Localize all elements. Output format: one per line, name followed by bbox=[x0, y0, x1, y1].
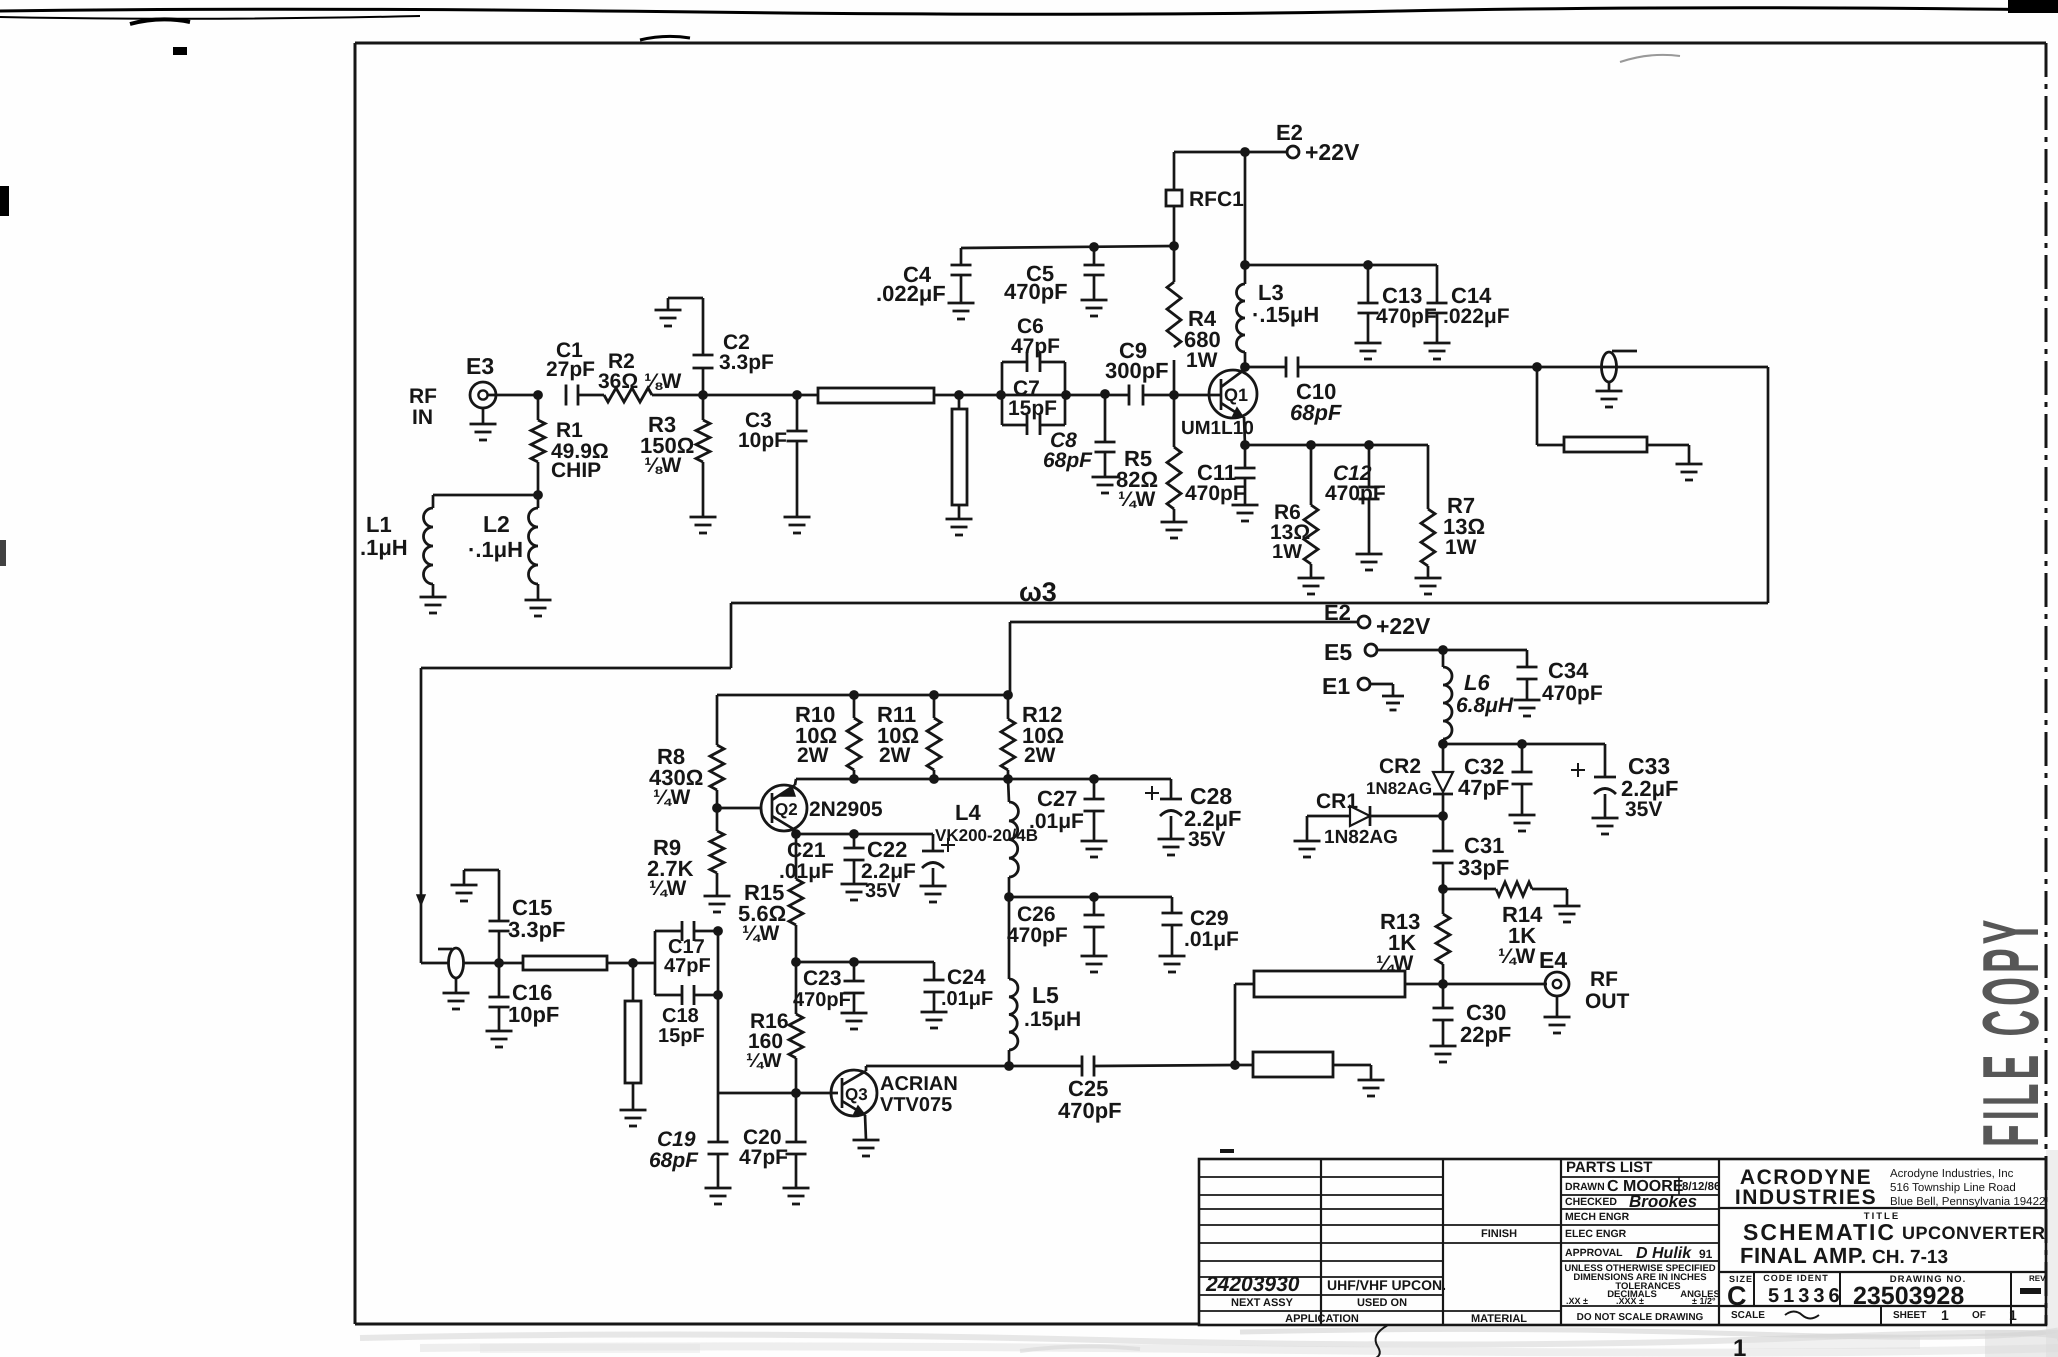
label RFC1 bbox=[1189, 188, 1244, 211]
svg-text:1W: 1W bbox=[1272, 541, 1302, 563]
ground below C20 bbox=[783, 1188, 810, 1204]
node: junction R12/L4 bbox=[1003, 774, 1013, 784]
node: junction R4/R5/base Q1 bbox=[1169, 390, 1179, 400]
node: junction Q2 collector bbox=[791, 829, 801, 839]
resistor R4 bbox=[1167, 246, 1181, 395]
svg-text:27pF: 27pF bbox=[546, 358, 595, 381]
svg-text:.XXX ±: .XXX ± bbox=[1616, 1296, 1644, 1306]
ground below C27 bbox=[1081, 841, 1108, 857]
label C32 47pF bbox=[1458, 754, 1509, 800]
node: junction emitter bus bbox=[1240, 440, 1250, 450]
svg-text:1W: 1W bbox=[1445, 536, 1477, 559]
label C34 470pF bbox=[1542, 658, 1603, 705]
scan artifact: bottom speckle band bbox=[360, 1150, 2058, 1357]
wire W3 feedback bbox=[417, 367, 1768, 963]
terminal E3 (RF IN connector) bbox=[470, 382, 538, 408]
label C16 10pF bbox=[508, 980, 559, 1027]
wire C13/C14 rail bbox=[1245, 264, 1437, 267]
svg-text:¼W: ¼W bbox=[653, 786, 691, 809]
svg-text:FILE COPY: FILE COPY bbox=[1967, 916, 2055, 1147]
svg-text:.01μF: .01μF bbox=[941, 988, 993, 1010]
svg-text:Blue Bell, Pennsylvania 19422: Blue Bell, Pennsylvania 19422 bbox=[1890, 1196, 2045, 1208]
ground below C5 bbox=[1081, 300, 1108, 316]
wire Q2 collector bbox=[795, 830, 796, 834]
resistor R16 bbox=[789, 962, 803, 1093]
svg-text:VK200-20/4B: VK200-20/4B bbox=[935, 826, 1038, 845]
ground below C4 bbox=[948, 303, 975, 319]
svg-text:E1: E1 bbox=[1322, 673, 1350, 699]
capacitor network frame C6/C7 bbox=[1002, 362, 1065, 425]
svg-text:C21: C21 bbox=[787, 839, 826, 862]
label R13 1K 1/4W bbox=[1376, 909, 1420, 975]
svg-text:PARTS LIST: PARTS LIST bbox=[1566, 1159, 1652, 1176]
ground below C22 bbox=[920, 886, 947, 902]
capacitor C29 bbox=[1162, 897, 1183, 956]
node: junction C13 bbox=[1363, 260, 1373, 270]
capacitor C25 bbox=[1082, 1056, 1235, 1077]
ground below coax J1 bbox=[1596, 382, 1623, 407]
label C9 300pF bbox=[1105, 338, 1169, 383]
ground below C33 bbox=[1592, 818, 1619, 834]
wire E2 to bus bbox=[1009, 622, 1012, 695]
label R12 10ohm 2W bbox=[1022, 702, 1064, 767]
svg-text:R1: R1 bbox=[556, 419, 583, 442]
capacitor C3 bbox=[787, 395, 808, 517]
svg-text:FINISH: FINISH bbox=[1481, 1228, 1517, 1240]
ground right of TL7 bbox=[1358, 1080, 1385, 1096]
label R16 160 1/4W bbox=[746, 1010, 789, 1072]
svg-text:47pF: 47pF bbox=[1458, 775, 1509, 800]
ground right of R14 bbox=[1554, 906, 1581, 922]
svg-text:ACRIAN: ACRIAN bbox=[880, 1073, 958, 1095]
capacitor C1 bbox=[566, 385, 604, 406]
label +22V stage2 bbox=[1376, 613, 1431, 639]
node: junction L6 top bbox=[1438, 645, 1448, 655]
wire C21/C22 rail bbox=[796, 833, 933, 836]
resistor R2 bbox=[604, 388, 703, 402]
svg-text:516 Township Line Road: 516 Township Line Road bbox=[1890, 1182, 2016, 1194]
label R10 10ohm 2W bbox=[795, 702, 837, 767]
label C15 3.3pF bbox=[508, 895, 565, 942]
svg-text:.01μF: .01μF bbox=[779, 860, 834, 883]
label CR2 1N82AG bbox=[1366, 755, 1432, 798]
ground below C14 bbox=[1424, 343, 1451, 359]
svg-text:10pF: 10pF bbox=[508, 1002, 559, 1027]
scan artifact: small dash above title block bbox=[1220, 1149, 1234, 1153]
capacitor C11 bbox=[1235, 445, 1256, 505]
wire Q2 emitter to bus2 bbox=[795, 779, 796, 785]
label W3 bbox=[1019, 577, 1057, 607]
node: junction C18 right bbox=[713, 990, 723, 1000]
node: junction R11 bottom bbox=[929, 774, 939, 784]
ground below C32 bbox=[1509, 815, 1536, 831]
title block: TITLE label bbox=[1864, 1211, 1900, 1222]
stripline TL3 bbox=[1564, 437, 1647, 452]
label L1 .1uH bbox=[360, 512, 408, 560]
resistor R12 bbox=[1001, 695, 1015, 779]
node: junction R10 bottom bbox=[849, 774, 859, 784]
wire +22V rail stage1 bbox=[1174, 151, 1287, 154]
node: junction C2/R3 bbox=[698, 390, 708, 400]
resistor R15 bbox=[789, 834, 803, 962]
label C11 470pF bbox=[1185, 460, 1246, 505]
ground below C21 bbox=[841, 884, 868, 900]
resistor R6 bbox=[1304, 445, 1318, 578]
node: junction C12 bbox=[1364, 440, 1374, 450]
label L3 .15uH bbox=[1252, 280, 1319, 327]
svg-text:OUT: OUT bbox=[1585, 990, 1630, 1013]
top bus stage 2 bbox=[717, 694, 1010, 697]
svg-text:.022μF: .022μF bbox=[876, 281, 946, 306]
svg-text:IN: IN bbox=[412, 406, 433, 429]
capacitor pair frame C17/C18 bbox=[655, 931, 718, 995]
node: junction R6 bbox=[1306, 440, 1316, 450]
open stub TL5 bbox=[625, 963, 641, 1110]
label CR1 1N82AG bbox=[1316, 790, 1398, 848]
label C8 68pF bbox=[1043, 429, 1093, 472]
title block: REV dash bbox=[2020, 1274, 2046, 1294]
wire Q3 base line bbox=[718, 1092, 838, 1095]
stripline TL7 bbox=[1235, 1052, 1371, 1080]
label C19 68pF bbox=[649, 1128, 699, 1172]
resistor R5 bbox=[1167, 395, 1181, 522]
label L5 .15uH bbox=[1024, 982, 1081, 1031]
choke RFC1 bbox=[1166, 152, 1182, 246]
terminal E4 (RF OUT connector) bbox=[1545, 972, 1569, 996]
svg-text:2W: 2W bbox=[879, 744, 911, 767]
terminal E2 stage2 bbox=[1358, 616, 1370, 628]
inductor L2 bbox=[529, 508, 539, 600]
node: junction C5 bbox=[1089, 242, 1099, 252]
svg-text:CR2: CR2 bbox=[1379, 755, 1421, 778]
node: junction R11 top bbox=[929, 690, 939, 700]
label C24 .01uF bbox=[941, 966, 993, 1010]
wire through bracket bbox=[1001, 394, 1066, 397]
ground below R3 bbox=[690, 517, 717, 533]
svg-text:L1: L1 bbox=[366, 512, 392, 537]
label C30 22pF bbox=[1460, 1000, 1511, 1047]
svg-text:CHECKED: CHECKED bbox=[1565, 1196, 1617, 1208]
label ACRIAN VTV075 bbox=[880, 1073, 958, 1116]
ground above C15 bbox=[451, 885, 478, 901]
svg-text:.022μF: .022μF bbox=[1443, 305, 1510, 328]
label C23 470pF bbox=[793, 967, 851, 1011]
label E4 bbox=[1539, 947, 1567, 973]
node: junction C27 bbox=[1089, 774, 1099, 784]
label C21 .01uF bbox=[779, 839, 834, 883]
ground below Q3 bbox=[853, 1140, 880, 1156]
label C3 10pF bbox=[738, 409, 787, 452]
svg-text:·.1μH: ·.1μH bbox=[468, 537, 523, 562]
capacitor C21 bbox=[844, 834, 865, 884]
svg-text:¼W: ¼W bbox=[1118, 488, 1156, 511]
svg-text:C18: C18 bbox=[662, 1005, 699, 1027]
node: junction R1/C1 bbox=[533, 390, 543, 400]
node: bracket left junction bbox=[996, 390, 1006, 400]
node: junction L6/CR2/C32 bbox=[1438, 739, 1448, 749]
ground left of CR1 bbox=[1294, 841, 1321, 857]
label C14 .022uF bbox=[1443, 283, 1510, 328]
svg-text:APPROVAL: APPROVAL bbox=[1565, 1247, 1623, 1259]
svg-text:¼W: ¼W bbox=[742, 922, 780, 945]
label C22 2.2uF 35V bbox=[861, 837, 916, 902]
svg-text:300pF: 300pF bbox=[1105, 358, 1169, 383]
svg-text:CH. 7-13: CH. 7-13 bbox=[1872, 1247, 1948, 1268]
wire Q2 base bbox=[717, 807, 761, 810]
resistor R8 bbox=[710, 695, 724, 808]
node: junction C3 bbox=[792, 390, 802, 400]
svg-text:C29: C29 bbox=[1190, 907, 1229, 930]
title block: DRAWN bbox=[1565, 1178, 1720, 1195]
svg-text:1W: 1W bbox=[1186, 349, 1218, 372]
title block: SCALE row bbox=[1731, 1307, 2017, 1323]
capacitor C8 bbox=[1095, 395, 1116, 477]
node: junction stub TL2 bbox=[952, 390, 1001, 400]
capacitor C18 bbox=[682, 985, 694, 1005]
ground below TL5 bbox=[620, 1110, 647, 1126]
svg-text:35V: 35V bbox=[1625, 798, 1662, 821]
svg-text:36Ω ⅛W: 36Ω ⅛W bbox=[598, 370, 682, 393]
node: junction L5 bottom bbox=[1004, 1061, 1014, 1071]
svg-text:E3: E3 bbox=[466, 353, 494, 379]
node: junction R14 bbox=[1438, 884, 1448, 894]
svg-text:47pF: 47pF bbox=[739, 1146, 788, 1169]
label L4 VK200-20/4B bbox=[935, 800, 1038, 845]
svg-text:Q2: Q2 bbox=[775, 800, 798, 819]
node: junction stub TL5 bbox=[628, 958, 655, 968]
svg-text:68pF: 68pF bbox=[1043, 449, 1093, 472]
svg-text:REV: REV bbox=[2029, 1274, 2046, 1283]
node: junction Q2 base bbox=[712, 803, 722, 813]
scan artifact: left edge marks bbox=[0, 47, 187, 566]
open stub TL2 bbox=[952, 395, 967, 519]
svg-text:SHEET: SHEET bbox=[1893, 1310, 1926, 1321]
capacitor C5 bbox=[1084, 247, 1105, 300]
label R3 150ohm 1/8W bbox=[640, 412, 694, 477]
svg-text:Q1: Q1 bbox=[1224, 385, 1248, 405]
svg-text:47pF: 47pF bbox=[1011, 335, 1060, 358]
label 2N2905 bbox=[809, 798, 883, 821]
resistor R11 bbox=[927, 695, 941, 779]
label C17 47pF bbox=[664, 936, 711, 977]
label C10 68pF bbox=[1290, 379, 1342, 425]
svg-text:L6: L6 bbox=[1464, 670, 1490, 695]
svg-text:OF: OF bbox=[1972, 1310, 1986, 1321]
inductor L1 bbox=[424, 508, 434, 597]
label C7 15pF bbox=[1008, 377, 1057, 420]
svg-text:22pF: 22pF bbox=[1460, 1022, 1511, 1047]
inductor L6 bbox=[1443, 650, 1452, 744]
node: junction C21 bbox=[849, 829, 859, 839]
capacitor C4 bbox=[951, 248, 972, 303]
node: junction Q1 collector / C10 bbox=[1240, 362, 1250, 372]
svg-text:.1μH: .1μH bbox=[360, 535, 408, 560]
node: junction output striplines bbox=[1230, 1060, 1240, 1070]
wire C18 to Q3 base bbox=[717, 995, 720, 1093]
title block: address bbox=[1890, 1168, 2045, 1208]
resistor R10 bbox=[847, 695, 861, 779]
svg-text:VTV075: VTV075 bbox=[880, 1094, 952, 1116]
wire to E4 bbox=[1443, 983, 1547, 986]
wire Q1 emitter bbox=[1244, 417, 1245, 445]
label Q2 bbox=[775, 800, 798, 819]
label C26 470pF bbox=[1007, 903, 1068, 947]
capacitor C10 bbox=[1245, 357, 1537, 378]
svg-text:RFC1: RFC1 bbox=[1189, 188, 1244, 211]
svg-text:INDUSTRIES: INDUSTRIES bbox=[1735, 1186, 1877, 1209]
label R9 2.7K 1/4W bbox=[647, 835, 694, 900]
label C13 470pF bbox=[1376, 283, 1437, 328]
capacitor C26 bbox=[1084, 897, 1105, 956]
label L2 .1uH bbox=[468, 511, 523, 562]
label C4 .022uF bbox=[876, 262, 946, 306]
ground below R7 bbox=[1415, 578, 1442, 594]
label R11 10ohm 2W bbox=[877, 702, 919, 767]
svg-text:D Hulik: D Hulik bbox=[1636, 1245, 1692, 1262]
label C28 2.2uF 35V bbox=[1184, 783, 1241, 851]
resistor R14 branch bbox=[1443, 882, 1567, 906]
svg-text:470pF: 470pF bbox=[1376, 305, 1437, 328]
capacitor C2 bbox=[668, 298, 714, 395]
label C6 47pF bbox=[1011, 315, 1060, 358]
svg-text:6.8μH: 6.8μH bbox=[1456, 694, 1514, 717]
node: junction R4/C4C5 line bbox=[1169, 241, 1179, 251]
svg-text:1: 1 bbox=[1733, 1335, 1746, 1357]
svg-text:33pF: 33pF bbox=[1458, 855, 1509, 880]
ground below C28 bbox=[1158, 839, 1185, 855]
inductor L5 bbox=[1009, 897, 1018, 1066]
svg-text:68pF: 68pF bbox=[1290, 400, 1342, 425]
capacitor C33 bbox=[1571, 744, 1616, 818]
svg-text:FINAL AMP.: FINAL AMP. bbox=[1740, 1243, 1867, 1268]
capacitor C19 bbox=[708, 1093, 729, 1188]
svg-text:1N82AG: 1N82AG bbox=[1366, 779, 1432, 798]
node: junction C15/C16 bbox=[494, 958, 504, 968]
ground below E4 bbox=[1544, 996, 1571, 1033]
terminal E5 bbox=[1365, 644, 1377, 656]
sheet border frame bbox=[355, 43, 2046, 1325]
svg-text:RF: RF bbox=[409, 385, 437, 408]
svg-text:¼W: ¼W bbox=[746, 1050, 782, 1072]
label R6 13ohm 1W bbox=[1270, 501, 1310, 563]
svg-text:3.3pF: 3.3pF bbox=[719, 351, 774, 374]
svg-text:DO NOT SCALE DRAWING: DO NOT SCALE DRAWING bbox=[1577, 1312, 1704, 1323]
label RF OUT bbox=[1585, 968, 1630, 1013]
svg-text:51336: 51336 bbox=[1768, 1285, 1844, 1307]
ground right of TL3 bbox=[1676, 464, 1703, 480]
svg-text:⅛W: ⅛W bbox=[644, 454, 682, 477]
title block: PARTS LIST bbox=[1566, 1159, 1652, 1176]
label C25 470pF bbox=[1058, 1076, 1122, 1123]
label R4 680 1W bbox=[1184, 306, 1221, 372]
title block: ELEC ENGR bbox=[1565, 1228, 1627, 1240]
svg-text:·.15μH: ·.15μH bbox=[1252, 302, 1319, 327]
capacitor C12 bbox=[1359, 445, 1380, 554]
svg-text:15pF: 15pF bbox=[658, 1025, 705, 1047]
title block: CODE IDENT bbox=[1763, 1273, 1843, 1307]
label C29 .01uF bbox=[1184, 907, 1239, 951]
label +22V stage1 bbox=[1305, 139, 1360, 165]
wire C32/C33 rail bbox=[1443, 743, 1605, 746]
stripline TL6 bbox=[1254, 971, 1443, 997]
transistor Q1 (UM1L10) bbox=[1209, 370, 1257, 418]
ground below C12 bbox=[1356, 554, 1383, 570]
label RF IN bbox=[409, 385, 437, 429]
svg-text:Q3: Q3 bbox=[845, 1085, 868, 1104]
svg-text:470pF: 470pF bbox=[1542, 682, 1603, 705]
svg-text:DRAWN: DRAWN bbox=[1565, 1181, 1605, 1193]
svg-text:470pF: 470pF bbox=[793, 989, 851, 1011]
node: junction Q1 collector column bbox=[1240, 147, 1250, 157]
ground below L2 bbox=[525, 600, 552, 616]
svg-text:C: C bbox=[1727, 1281, 1747, 1311]
svg-text:CODE IDENT: CODE IDENT bbox=[1763, 1273, 1829, 1283]
ground below C16 bbox=[486, 1031, 513, 1047]
label C31 33pF bbox=[1458, 833, 1509, 880]
capacitor C23 bbox=[844, 962, 865, 1013]
label Q1 bbox=[1224, 385, 1248, 405]
resistor R7 bbox=[1421, 445, 1435, 578]
stripline TL1 bbox=[797, 388, 952, 403]
wire to L1 bbox=[433, 495, 538, 508]
wire C26/C29 rail bbox=[1009, 896, 1172, 899]
title block: crease mark bbox=[1370, 1325, 1388, 1357]
wire C2 node to C3 node bbox=[703, 394, 797, 397]
ground below C26 bbox=[1081, 956, 1108, 972]
svg-text:10pF: 10pF bbox=[738, 429, 787, 452]
svg-text:24203930: 24203930 bbox=[1205, 1273, 1300, 1296]
resistor R13 bbox=[1436, 889, 1450, 984]
coax balun J2 bbox=[438, 948, 464, 978]
capacitor C15 bbox=[464, 870, 510, 963]
ground below coax J2 bbox=[443, 978, 470, 1009]
ground below R9 bbox=[704, 896, 731, 912]
title block grid bbox=[1199, 1159, 2046, 1325]
svg-text:Acrodyne Industries, Inc: Acrodyne Industries, Inc bbox=[1890, 1168, 2014, 1180]
wire Q3 collector line bbox=[866, 1066, 1082, 1071]
node: junction C32 bbox=[1517, 739, 1527, 749]
svg-text:1: 1 bbox=[2009, 1307, 2017, 1323]
node: junction C23 bbox=[849, 957, 859, 967]
stub branch wire bbox=[1537, 367, 1564, 445]
svg-text:CHIP: CHIP bbox=[551, 459, 601, 482]
node: junction R10 top bbox=[849, 690, 859, 700]
svg-text:3.3pF: 3.3pF bbox=[508, 917, 565, 942]
ground at E1 bbox=[1382, 696, 1404, 710]
capacitor C32 bbox=[1512, 744, 1533, 815]
label Q3 bbox=[845, 1085, 868, 1104]
title block: CHECKED bbox=[1565, 1192, 1697, 1211]
inductor L3 bbox=[1237, 284, 1245, 367]
node: bracket right junction bbox=[1061, 390, 1105, 400]
node: junction C8 bbox=[1100, 389, 1110, 399]
inductor L4 bbox=[1008, 779, 1018, 897]
svg-text:NEXT ASSY: NEXT ASSY bbox=[1231, 1297, 1294, 1309]
svg-text:E2: E2 bbox=[1276, 120, 1303, 145]
label C18 15pF bbox=[658, 1005, 705, 1047]
capacitor C16 bbox=[489, 963, 510, 1031]
svg-text:15pF: 15pF bbox=[1008, 397, 1057, 420]
capacitor C13 bbox=[1358, 265, 1379, 343]
ground below C19 bbox=[705, 1188, 732, 1204]
resistor R9 bbox=[710, 808, 724, 896]
ground below TL2 bbox=[946, 519, 973, 535]
node: junction C17 right bbox=[713, 926, 723, 936]
svg-text:1: 1 bbox=[1941, 1307, 1949, 1323]
label E2 stage1 bbox=[1276, 120, 1303, 145]
svg-text:C24: C24 bbox=[947, 966, 986, 989]
label R14 1K 1/4W bbox=[1498, 902, 1543, 968]
